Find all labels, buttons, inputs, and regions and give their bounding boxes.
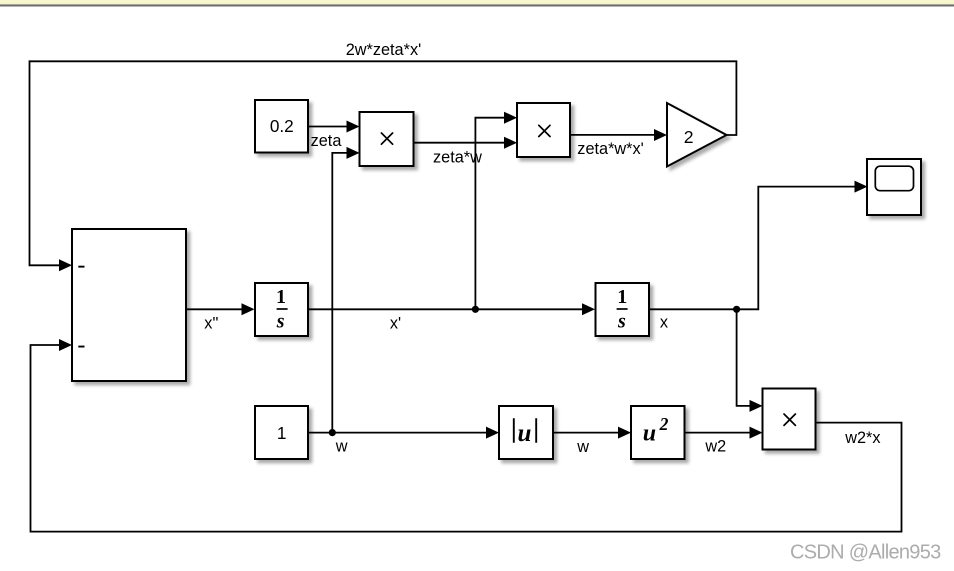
svg-text:2: 2 (659, 414, 669, 434)
svg-text:u: u (517, 420, 531, 447)
svg-text:1: 1 (277, 423, 287, 443)
svg-text:2w*zeta*x': 2w*zeta*x' (346, 41, 422, 59)
svg-text:2: 2 (684, 127, 694, 147)
svg-text:s: s (276, 310, 285, 332)
svg-text:s: s (617, 310, 626, 332)
svg-text:1: 1 (617, 286, 627, 308)
svg-text:x: x (660, 314, 668, 332)
svg-text:w2*x: w2*x (844, 429, 880, 447)
svg-text:CSDN @Allen953: CSDN @Allen953 (790, 542, 941, 564)
svg-text:0.2: 0.2 (270, 116, 294, 136)
svg-text:w: w (335, 438, 348, 456)
svg-text:zeta*w*x': zeta*w*x' (577, 140, 643, 158)
svg-text:x'': x'' (204, 314, 218, 332)
svg-text:x': x' (390, 315, 401, 333)
svg-text:w: w (576, 438, 589, 456)
svg-text:1: 1 (276, 286, 286, 308)
svg-text:zeta*w: zeta*w (433, 148, 482, 166)
svg-text:zeta: zeta (311, 132, 343, 150)
svg-text:w2: w2 (704, 437, 726, 455)
svg-text:u: u (643, 420, 656, 446)
